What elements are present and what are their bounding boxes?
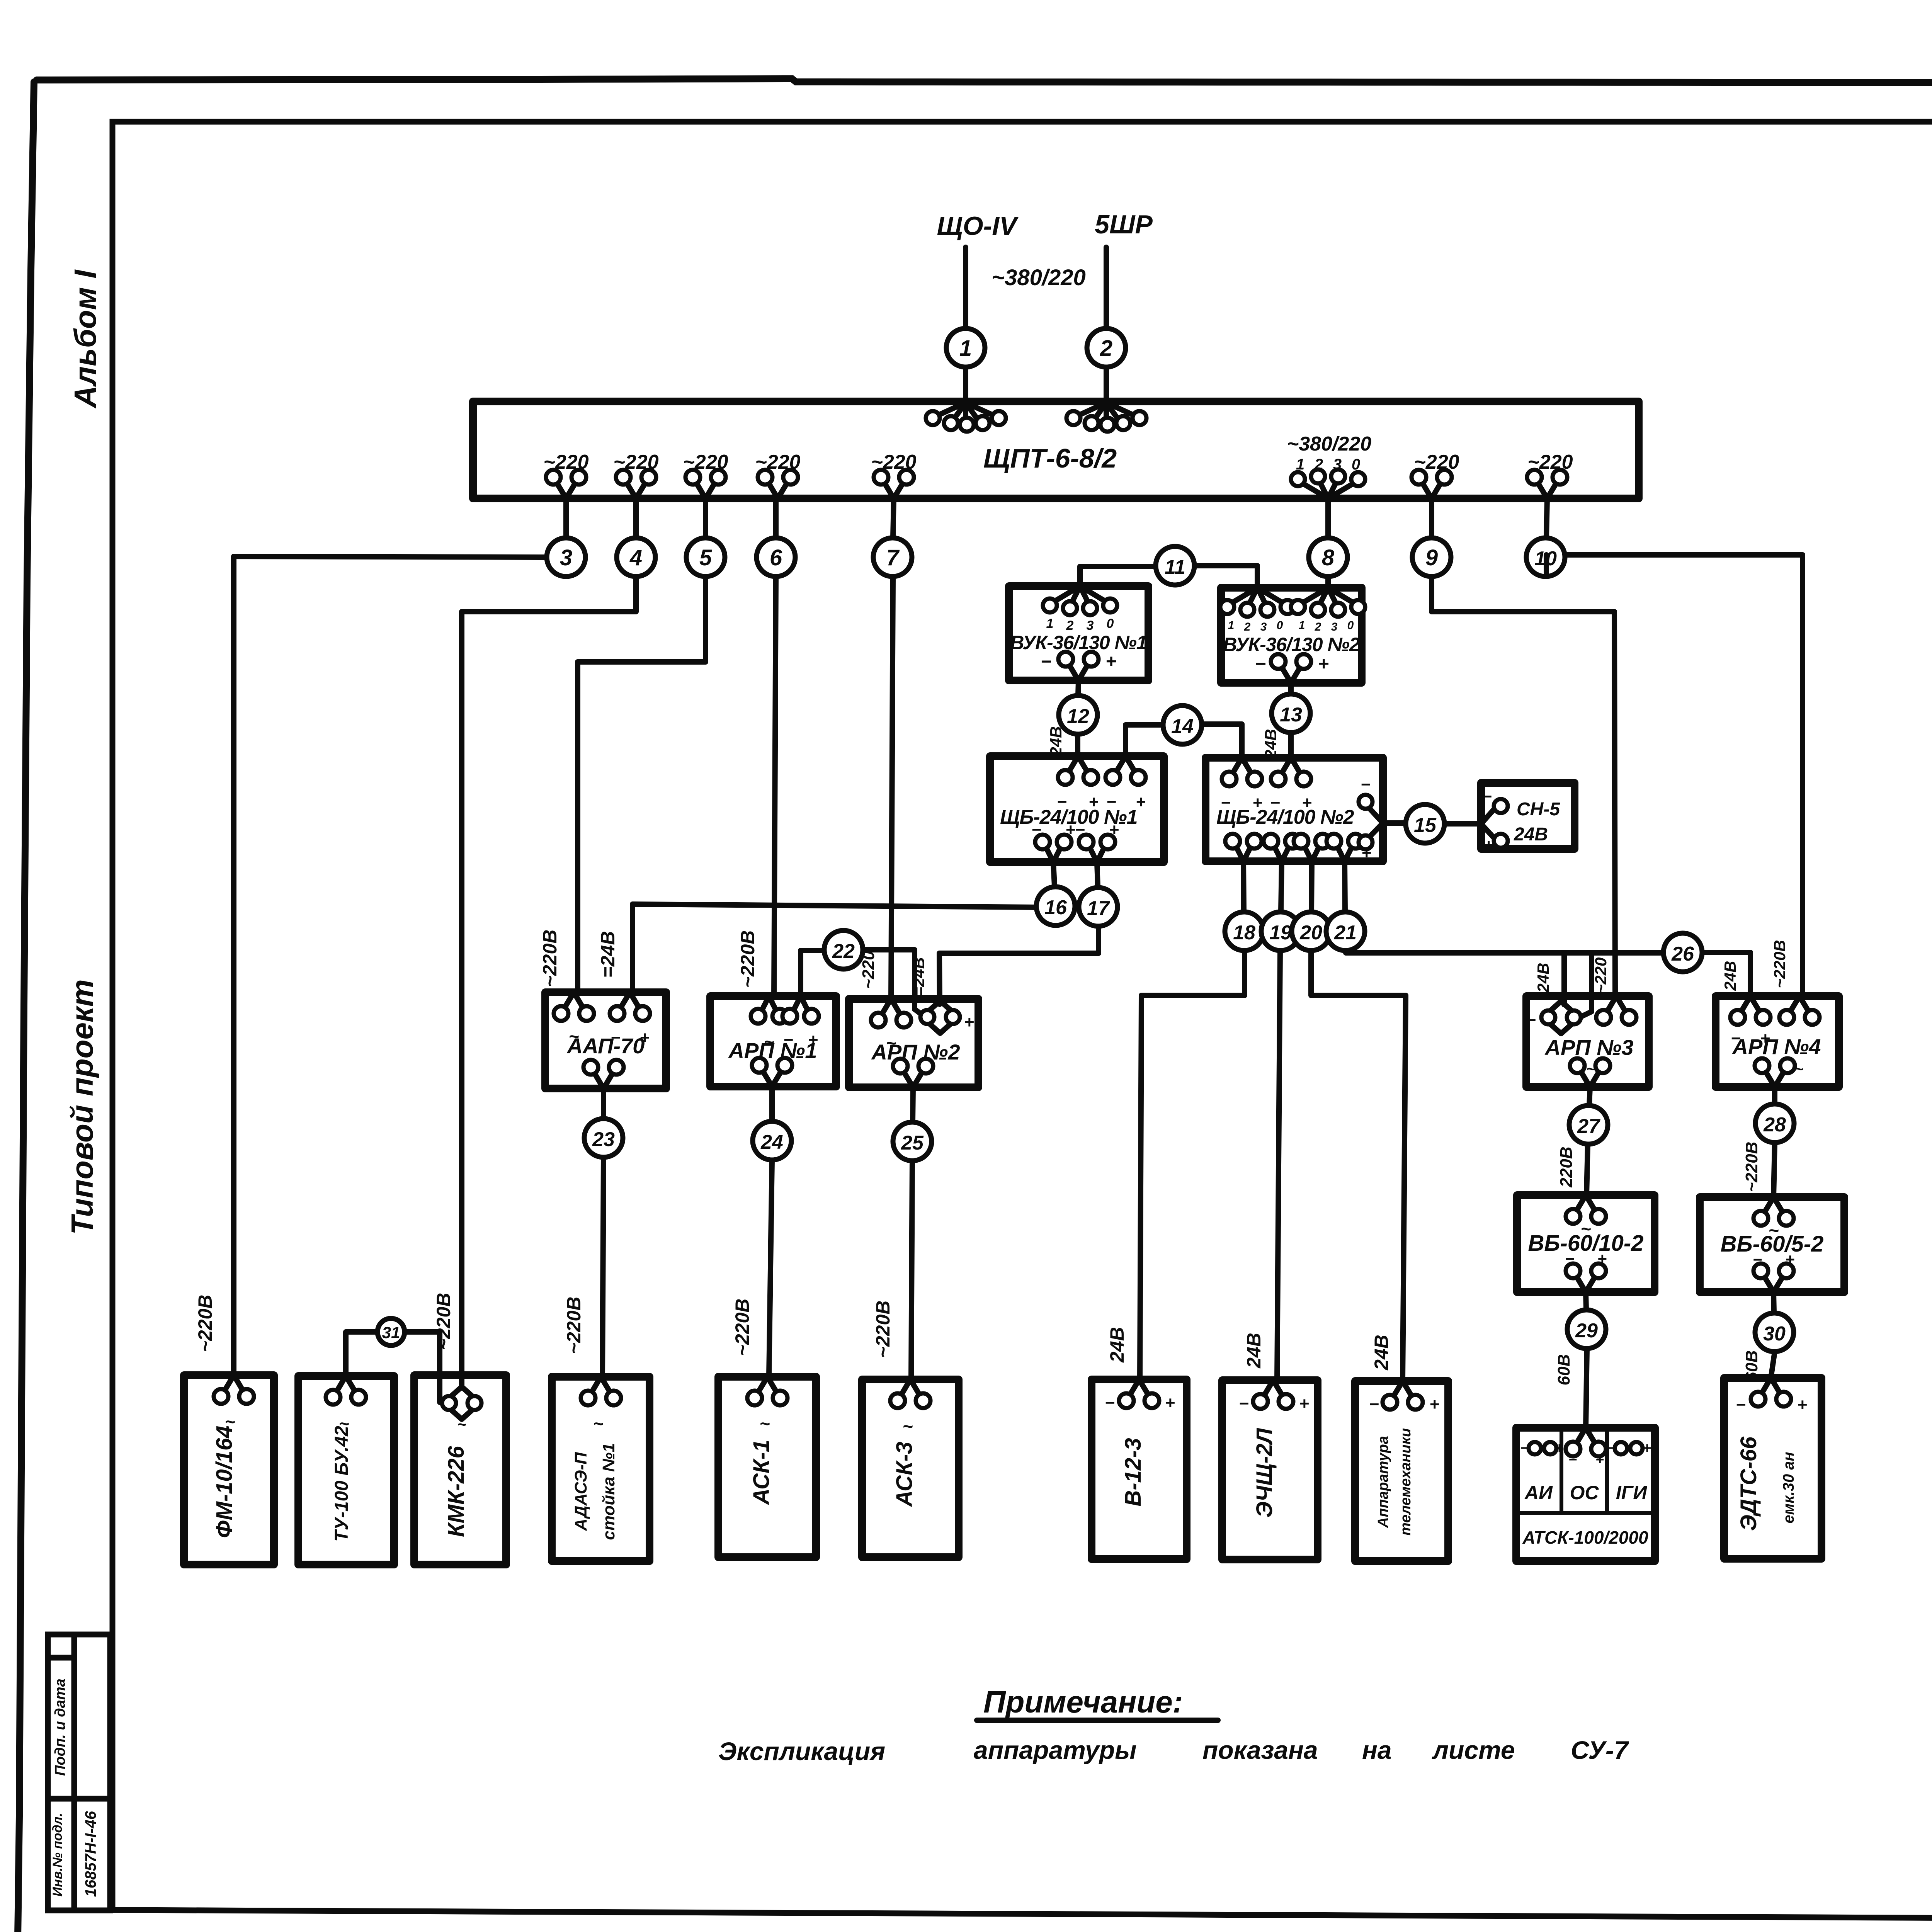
cable circle 31 xyxy=(378,1318,405,1345)
wire 8 (ЩПТ to ВУК-36/130 №2) xyxy=(1325,578,1331,588)
svg-text:Альбом I: Альбом I xyxy=(68,269,102,409)
svg-text:26: 26 xyxy=(1671,943,1694,965)
svg-text:+: + xyxy=(1302,793,1312,812)
outer border left xyxy=(17,82,34,1932)
svg-text:3: 3 xyxy=(560,545,572,570)
note text line xyxy=(718,1736,1629,1765)
cable circle 16 xyxy=(1036,887,1075,925)
wire 25 (АРП №2 to АСК-3) xyxy=(911,1087,913,1379)
svg-text:−: − xyxy=(1369,1395,1379,1414)
svg-text:−: − xyxy=(1731,1029,1741,1048)
svg-text:−: − xyxy=(611,1028,621,1047)
cable circle 30 xyxy=(1755,1313,1794,1352)
svg-text:АТСК-100/2000: АТСК-100/2000 xyxy=(1522,1527,1648,1548)
cable circle 7 xyxy=(893,498,894,538)
svg-text:24В: 24В xyxy=(1721,961,1739,991)
terminal fan feeder 8 xyxy=(1291,469,1365,498)
svg-text:3: 3 xyxy=(1087,618,1094,633)
svg-text:~: ~ xyxy=(1586,1061,1595,1078)
svg-text:на: на xyxy=(1362,1736,1392,1764)
svg-text:−: − xyxy=(1361,775,1371,794)
svg-text:+: + xyxy=(1299,1394,1309,1413)
wire 4 (ЩПТ to КМК-226) xyxy=(462,578,636,1388)
svg-text:емк.30 ан: емк.30 ан xyxy=(1780,1452,1797,1523)
wire 3 (ЩПТ to ФМ-10/164) xyxy=(234,556,546,1375)
stamp table bottom-left xyxy=(48,1634,110,1910)
svg-text:0: 0 xyxy=(1277,619,1283,632)
svg-text:24В: 24В xyxy=(1534,963,1552,993)
svg-text:~: ~ xyxy=(903,1416,913,1436)
cable circle 4 xyxy=(633,498,639,538)
svg-text:220В: 220В xyxy=(1557,1146,1576,1187)
svg-text:0: 0 xyxy=(1107,616,1114,631)
wire 31 (КМК-226 to ТУ-100) xyxy=(346,1332,444,1403)
wire 9 (ЩПТ to АРП №3) xyxy=(1432,578,1615,996)
svg-text:ВУК-36/130 №2: ВУК-36/130 №2 xyxy=(1223,634,1360,655)
cable circle 19 xyxy=(1261,912,1300,951)
svg-text:~: ~ xyxy=(569,1026,579,1046)
svg-text:~: ~ xyxy=(764,1032,774,1052)
svg-text:16: 16 xyxy=(1044,896,1067,919)
terminal fan feeder 4 xyxy=(616,470,656,498)
rectifier В-12-3 xyxy=(1092,1379,1187,1559)
cable circle 14 xyxy=(1163,706,1202,744)
svg-text:28: 28 xyxy=(1763,1114,1786,1136)
svg-text:2: 2 xyxy=(1244,621,1251,633)
svg-text:Примечание:: Примечание: xyxy=(983,1685,1183,1719)
svg-text:14: 14 xyxy=(1171,715,1194,738)
clock unit ЭЧЩ-2Л xyxy=(1222,1380,1318,1560)
telephone unit ФМ-10/164 xyxy=(184,1375,274,1565)
svg-text:показана: показана xyxy=(1202,1736,1318,1764)
svg-text:23: 23 xyxy=(592,1128,615,1151)
svg-text:АРП №3: АРП №3 xyxy=(1544,1035,1634,1060)
svg-text:+: + xyxy=(1797,1395,1807,1414)
svg-text:6: 6 xyxy=(770,545,782,570)
wire 6 (ЩПТ to АРП №1) xyxy=(774,578,776,998)
svg-text:4: 4 xyxy=(629,545,642,570)
svg-text:~: ~ xyxy=(457,1416,466,1433)
unit АСК-1 xyxy=(718,1377,816,1557)
terminal fan input 2 on ЩПТ xyxy=(1066,403,1146,432)
svg-text:Инв.№ подл.: Инв.№ подл. xyxy=(50,1813,65,1897)
telephone exchange АТСК-100/2000 xyxy=(1516,1428,1655,1561)
svg-text:~220В: ~220В xyxy=(194,1295,216,1352)
value label ~380/220 with pins 1 2 3 0 (feeder 8) xyxy=(1287,433,1371,473)
svg-text:~220В: ~220В xyxy=(563,1297,585,1354)
svg-text:~: ~ xyxy=(1769,1220,1779,1240)
switchboard КМК-226 xyxy=(414,1375,506,1565)
cable circle 6 xyxy=(773,498,779,538)
rectifier ВУК-36/130 №1 xyxy=(1009,586,1148,680)
cable circle 29 xyxy=(1567,1310,1606,1349)
terminal fan feeder 9 xyxy=(1412,470,1452,498)
svg-text:−: − xyxy=(1057,793,1067,811)
svg-text:5ШР: 5ШР xyxy=(1095,210,1153,239)
svg-text:2: 2 xyxy=(1100,336,1112,361)
cable circle 8 xyxy=(1325,498,1331,538)
svg-text:12: 12 xyxy=(1067,705,1089,728)
cable circle 17 xyxy=(1079,888,1117,926)
svg-text:+: + xyxy=(1555,1440,1563,1456)
radio unit АРП №2 xyxy=(849,999,978,1087)
cable circle 5 xyxy=(703,498,708,538)
rectifier unit ААП-70 xyxy=(545,992,666,1088)
svg-text:+: + xyxy=(1429,1395,1439,1414)
cable circle 24 xyxy=(753,1121,791,1160)
svg-text:+: + xyxy=(639,1028,650,1047)
svg-text:КМК-226: КМК-226 xyxy=(444,1446,469,1537)
svg-text:−: − xyxy=(1031,820,1041,839)
svg-text:5: 5 xyxy=(699,545,712,570)
terminal fan feeder 5 xyxy=(685,470,726,498)
cable circle 10 xyxy=(1546,498,1547,538)
svg-text:~220В: ~220В xyxy=(731,1299,753,1356)
svg-text:АРП №4: АРП №4 xyxy=(1732,1034,1821,1059)
svg-text:−: − xyxy=(1482,787,1492,806)
svg-text:−: − xyxy=(1105,1393,1115,1412)
svg-text:~220В: ~220В xyxy=(539,930,561,987)
svg-text:17: 17 xyxy=(1087,897,1110,920)
bell transformer ВБ-60/10-2 xyxy=(1517,1195,1655,1292)
wire 22 (АРП №1 to АРП №2) xyxy=(801,950,924,1016)
svg-text:8: 8 xyxy=(1322,545,1335,570)
wire 15 (СН-5 to ЩБ №2) xyxy=(1383,823,1481,824)
svg-text:+: + xyxy=(1165,1393,1175,1412)
svg-text:Типовой проект: Типовой проект xyxy=(65,979,99,1235)
cable circle 12 xyxy=(1059,696,1097,734)
wire 14 (ЩБ №1 to ЩБ №2) xyxy=(1126,724,1242,758)
svg-text:~220В: ~220В xyxy=(433,1293,454,1350)
rectifier ВУК-36/130 №2 xyxy=(1220,588,1365,683)
cable circle 25 xyxy=(893,1122,932,1161)
svg-text:24: 24 xyxy=(760,1131,783,1153)
svg-text:+: + xyxy=(1785,1250,1795,1269)
cable circle 18 xyxy=(1225,912,1264,951)
cable circle 23 xyxy=(584,1119,623,1157)
radio unit АРП №1 xyxy=(710,996,836,1087)
svg-text:ЭДТС-66: ЭДТС-66 xyxy=(1736,1436,1761,1531)
cable circle 26 xyxy=(1663,933,1702,972)
cable circle 1 xyxy=(946,328,985,367)
cable circle 15 xyxy=(1406,804,1444,843)
svg-text:24В: 24В xyxy=(1371,1335,1392,1371)
wire 11 (jumper ВУК №1 to ВУК №2) xyxy=(1080,566,1257,588)
wire 20 (ЩБ №2 to аппаратура телемеханики) xyxy=(1311,861,1406,1381)
battery board ЩБ-24/100 №2 xyxy=(1206,758,1383,862)
svg-text:+: + xyxy=(1318,654,1329,674)
svg-text:стойка №1: стойка №1 xyxy=(599,1443,618,1540)
svg-text:+: + xyxy=(964,1013,974,1032)
svg-text:1: 1 xyxy=(1299,619,1305,632)
svg-text:11: 11 xyxy=(1165,556,1185,578)
svg-text:АСК-3: АСК-3 xyxy=(892,1442,917,1507)
svg-text:~: ~ xyxy=(1581,1219,1591,1239)
outer border top xyxy=(37,79,1932,83)
svg-text:16857Н-I-46: 16857Н-I-46 xyxy=(82,1811,99,1897)
bell transformer ВБ-60/5-2 xyxy=(1700,1197,1844,1292)
svg-text:ЩПТ-6-8/2: ЩПТ-6-8/2 xyxy=(983,443,1117,473)
svg-text:СН-5: СН-5 xyxy=(1517,799,1560,820)
svg-text:60В: 60В xyxy=(1554,1354,1573,1386)
cable circle 21 xyxy=(1326,912,1365,951)
svg-text:~220: ~220 xyxy=(1592,957,1610,994)
svg-text:1: 1 xyxy=(1046,616,1054,631)
svg-text:~220В: ~220В xyxy=(1742,1142,1761,1192)
svg-text:~220В: ~220В xyxy=(872,1301,894,1358)
svg-text:Экспликация: Экспликация xyxy=(718,1737,885,1765)
svg-text:3: 3 xyxy=(1260,621,1267,633)
svg-text:19: 19 xyxy=(1269,922,1292,944)
svg-text:−: − xyxy=(783,1031,793,1049)
svg-text:25: 25 xyxy=(901,1132,924,1154)
svg-text:1: 1 xyxy=(959,336,972,361)
wire 16 (ЩБ №1 to ААП-70) xyxy=(633,862,1054,992)
svg-text:ВУК-36/130 №1: ВУК-36/130 №1 xyxy=(1010,632,1146,653)
svg-text:−: − xyxy=(1041,651,1051,672)
cable circle 11 xyxy=(1156,546,1194,585)
svg-text:~380/220: ~380/220 xyxy=(1287,433,1371,455)
telephone stand АДАСЭ-П стойка №1 xyxy=(552,1377,650,1561)
svg-text:9: 9 xyxy=(1425,545,1438,570)
svg-text:АИ: АИ xyxy=(1524,1482,1553,1503)
svg-text:−: − xyxy=(1526,1011,1536,1030)
svg-text:+: + xyxy=(1760,1029,1770,1048)
wire 18 (ЩБ №2 to В-12-3) xyxy=(1140,861,1245,1379)
svg-text:29: 29 xyxy=(1575,1320,1598,1342)
svg-text:3: 3 xyxy=(1331,621,1338,633)
svg-text:ТУ-100 БУ.42: ТУ-100 БУ.42 xyxy=(332,1426,352,1542)
svg-text:13: 13 xyxy=(1280,704,1302,726)
svg-text:−: − xyxy=(1075,820,1085,839)
svg-text:+: + xyxy=(1252,793,1262,812)
telemechanics equipment box xyxy=(1355,1381,1448,1561)
svg-text:+: + xyxy=(1597,1250,1607,1268)
wire 4 into КМК diamond xyxy=(459,1375,464,1387)
wire 21 (ЩБ №2 to АРП №3) xyxy=(1345,861,1663,1017)
svg-text:−: − xyxy=(1106,793,1116,811)
svg-text:30: 30 xyxy=(1763,1323,1786,1345)
svg-text:−: − xyxy=(1255,654,1266,674)
svg-text:24В: 24В xyxy=(1514,824,1548,845)
svg-text:−: − xyxy=(1270,793,1280,812)
svg-text:АРП №2: АРП №2 xyxy=(871,1040,960,1064)
radio unit АРП №3 xyxy=(1526,996,1649,1087)
svg-text:20: 20 xyxy=(1299,922,1322,944)
wire 28 (АРП №4 to ВБ-60/5-2) xyxy=(1774,1087,1775,1197)
telegraph unit ЭДТС-66 xyxy=(1724,1378,1821,1559)
wire 5 (ЩПТ to ААП-70) xyxy=(578,578,706,994)
cable circle 20 xyxy=(1292,912,1330,951)
svg-text:~: ~ xyxy=(760,1413,770,1434)
svg-text:ЩО-IV: ЩО-IV xyxy=(937,211,1019,241)
cable circle 13 xyxy=(1272,694,1310,733)
svg-text:~380/220: ~380/220 xyxy=(992,265,1086,290)
wire 13 (ВУК №2 to ЩБ №2) xyxy=(1288,683,1294,758)
svg-text:+: + xyxy=(1088,793,1099,811)
svg-text:ЩБ-24/100 №2: ЩБ-24/100 №2 xyxy=(1216,806,1354,828)
distribution board ЩПТ-6-8/2 xyxy=(473,401,1639,498)
terminal fan feeder 7 xyxy=(874,470,914,498)
svg-text:−: − xyxy=(1568,1452,1577,1468)
svg-text:листе: листе xyxy=(1432,1736,1515,1764)
svg-text:ФМ-10/164: ФМ-10/164 xyxy=(212,1425,237,1538)
svg-text:=24В: =24В xyxy=(597,931,619,978)
wire 23 (ААП-70 to АДАСЭ-П) xyxy=(602,1088,604,1377)
svg-text:−: − xyxy=(1753,1250,1762,1269)
svg-text:Аппаратура: Аппаратура xyxy=(1375,1436,1391,1528)
svg-text:31: 31 xyxy=(382,1323,400,1342)
svg-text:−: − xyxy=(1239,1394,1249,1413)
wire 30 (ВБ-60/5-2 to ЭДТС-66) xyxy=(1771,1292,1775,1378)
svg-text:21: 21 xyxy=(1334,922,1357,944)
svg-text:~220В: ~220В xyxy=(1770,940,1789,988)
svg-text:+: + xyxy=(1361,844,1371,862)
svg-text:+: + xyxy=(1065,820,1075,839)
svg-text:0: 0 xyxy=(1347,619,1354,632)
terminal fan input 1 on ЩПТ xyxy=(926,403,1006,432)
note heading Примечание xyxy=(977,1685,1218,1720)
terminal fan feeder 6 xyxy=(758,470,798,498)
svg-text:24В: 24В xyxy=(1106,1327,1128,1363)
svg-text:IГИ: IГИ xyxy=(1616,1482,1648,1503)
wire 19 (ЩБ №2 to ЭЧЩ-2Л) xyxy=(1277,861,1282,1380)
svg-text:−: − xyxy=(1221,793,1231,812)
svg-text:~: ~ xyxy=(593,1413,604,1434)
svg-text:2: 2 xyxy=(1315,621,1321,633)
cable circle 22 xyxy=(824,930,863,969)
svg-text:+: + xyxy=(1136,793,1146,811)
svg-text:ЭЧЩ-2Л: ЭЧЩ-2Л xyxy=(1252,1428,1277,1518)
svg-text:+: + xyxy=(808,1031,818,1049)
svg-text:27: 27 xyxy=(1577,1115,1600,1138)
svg-text:аппаратуры: аппаратуры xyxy=(974,1736,1137,1764)
wire feeder 1 riser xyxy=(963,247,968,402)
terminal fan feeder 10 xyxy=(1527,470,1567,498)
svg-text:+: + xyxy=(1595,1452,1604,1468)
svg-text:+: + xyxy=(1643,1440,1651,1456)
cable circle 27 xyxy=(1569,1105,1608,1144)
svg-text:24В: 24В xyxy=(1047,726,1065,756)
wire 24 (АРП №1 to АСК-1) xyxy=(769,1087,772,1377)
svg-text:+: + xyxy=(1483,836,1493,855)
terminal fan feeder 3 xyxy=(546,470,586,498)
svg-text:22: 22 xyxy=(832,940,855,963)
svg-text:−: − xyxy=(1736,1395,1746,1414)
svg-text:−: − xyxy=(1565,1250,1575,1268)
svg-text:ОС: ОС xyxy=(1570,1482,1599,1503)
wire 12 (ВУК №1 to ЩБ №1) xyxy=(1078,680,1078,756)
wire 17 (ЩБ №1 to АРП №2) xyxy=(939,862,1099,1004)
wire 10 (ЩПТ to АРП №4) xyxy=(1546,555,1803,996)
svg-text:АСК-1: АСК-1 xyxy=(749,1440,774,1505)
wire 29 (ВБ-60/10-2 to АТСК) xyxy=(1586,1292,1587,1428)
radio unit АРП №4 xyxy=(1716,996,1839,1087)
svg-text:Подп. и дата: Подп. и дата xyxy=(52,1679,68,1776)
converter СН-5 24В xyxy=(1481,783,1575,855)
svg-text:+: + xyxy=(1109,820,1119,839)
svg-text:2: 2 xyxy=(1066,618,1074,633)
svg-text:~: ~ xyxy=(886,1033,896,1053)
svg-text:СУ-7: СУ-7 xyxy=(1571,1736,1629,1764)
svg-text:АДАСЭ-П: АДАСЭ-П xyxy=(571,1452,590,1531)
svg-text:24В: 24В xyxy=(1243,1333,1265,1369)
cable circle 3 xyxy=(563,498,569,538)
svg-text:телемеханики: телемеханики xyxy=(1398,1428,1414,1536)
cable circle 9 xyxy=(1429,498,1434,538)
wire 26 (АРП №3 to АРП №4) xyxy=(1702,952,1750,996)
svg-text:1: 1 xyxy=(1228,619,1235,632)
wire 27 (АРП №3 to ВБ-60/10-2) xyxy=(1587,1087,1590,1195)
cable circle 2 xyxy=(1087,328,1126,367)
svg-text:~220В: ~220В xyxy=(737,930,759,988)
unit АСК-3 xyxy=(862,1379,959,1557)
svg-text:В-12-3: В-12-3 xyxy=(1121,1438,1146,1506)
battery board ЩБ-24/100 №1 xyxy=(990,756,1164,862)
telecontrol unit ТУ-100 БУ.42 xyxy=(298,1376,394,1565)
wire 7 (ЩПТ to АРП №2) xyxy=(891,578,893,1000)
svg-text:7: 7 xyxy=(886,545,900,570)
wire feeder 2 riser xyxy=(1104,247,1109,402)
svg-text:15: 15 xyxy=(1414,814,1437,837)
cable circle 28 xyxy=(1755,1104,1794,1143)
svg-text:18: 18 xyxy=(1233,922,1255,944)
svg-text:+: + xyxy=(1105,651,1116,672)
